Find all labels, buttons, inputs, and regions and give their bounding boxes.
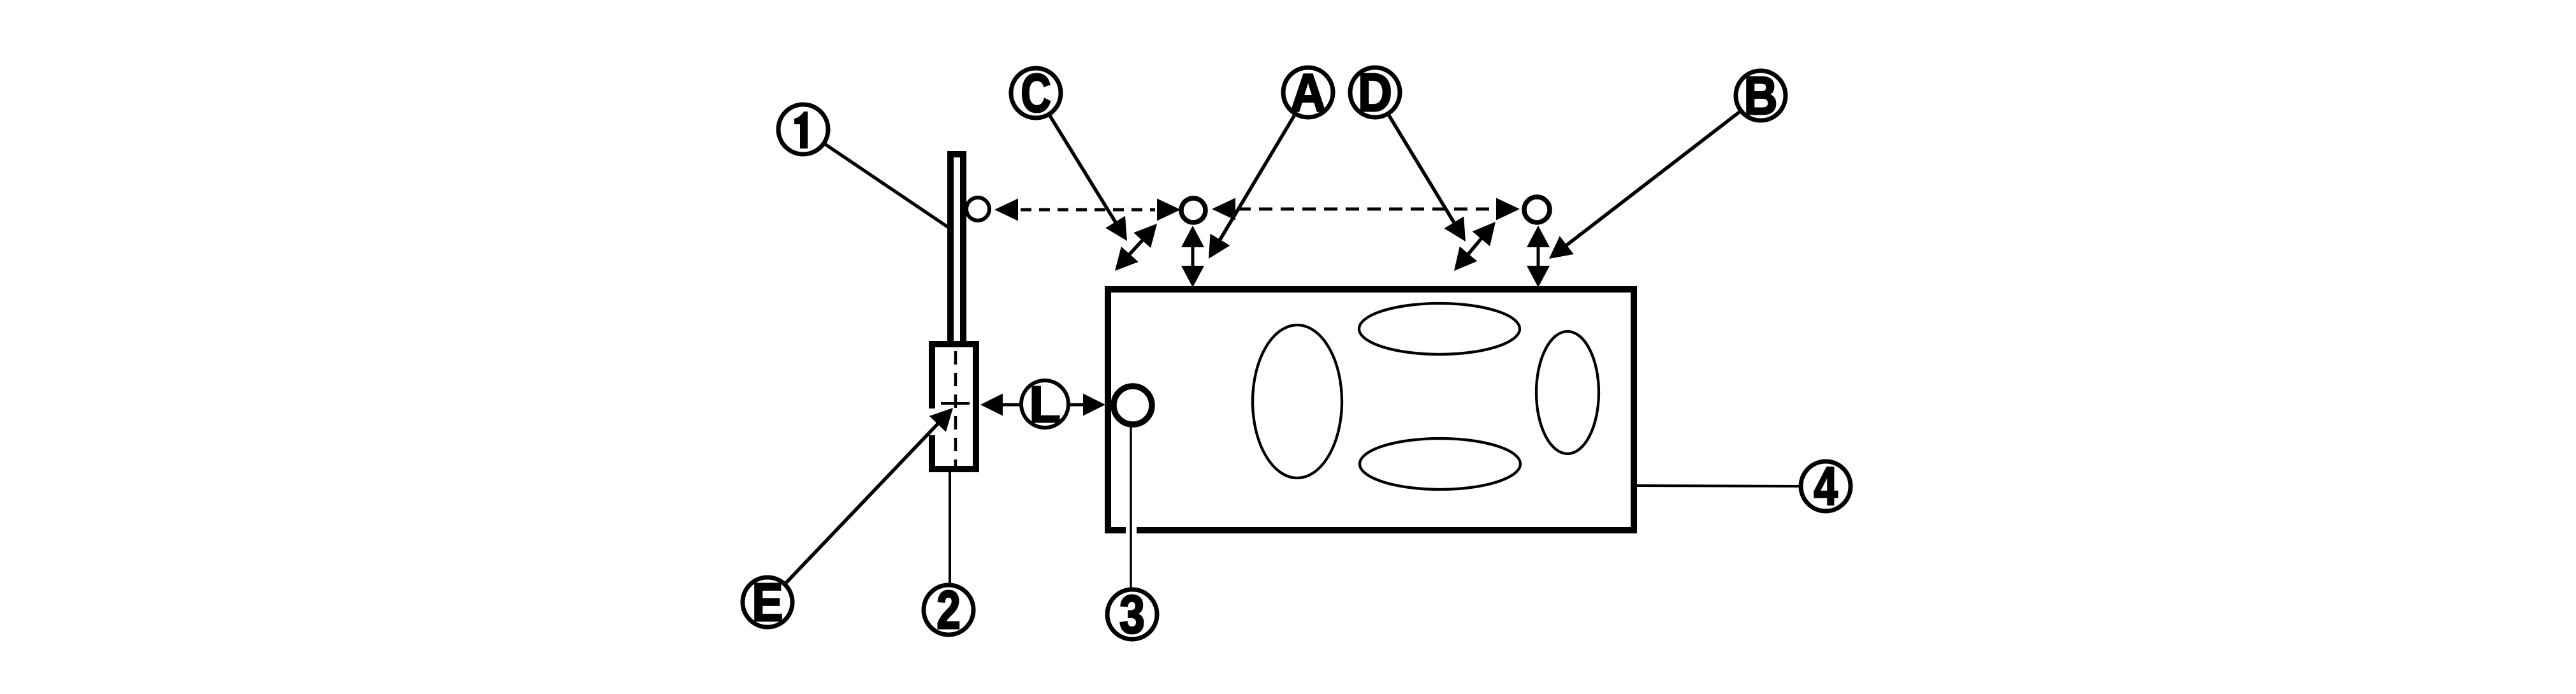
dashed dimension line left segment (994, 199, 1181, 221)
vertical double arrow right (1527, 226, 1550, 287)
vertical double arrow mid (1181, 226, 1204, 287)
mid pin (1181, 198, 1205, 222)
label L (1021, 376, 1068, 433)
label 4 (1801, 457, 1851, 517)
leader line 4 (1634, 486, 1800, 486)
leader line A with arrow (1219, 116, 1294, 241)
slider block 2 (926, 344, 976, 469)
dashed dimension line right segment (1212, 198, 1520, 220)
svg-text:E: E (752, 572, 783, 632)
pin on rod (966, 198, 989, 220)
svg-text:2: 2 (936, 581, 960, 640)
leader line 1 (826, 145, 949, 228)
label C (1011, 63, 1061, 123)
knob 3 (1114, 386, 1152, 424)
right pin (1524, 197, 1550, 222)
ellipse bottom (1360, 438, 1520, 489)
label D (1350, 62, 1400, 122)
svg-text:3: 3 (1119, 584, 1145, 644)
label 1 (778, 105, 828, 154)
ellipse right (1536, 331, 1599, 454)
label A (1283, 63, 1333, 123)
main body 4 (1108, 289, 1634, 535)
svg-text:B: B (1744, 66, 1778, 126)
label 2 (924, 581, 973, 640)
leader line 2 (949, 469, 951, 584)
ellipse left (1253, 325, 1342, 478)
label 3 (1107, 584, 1157, 644)
rod 1 (vertical bar) (950, 154, 963, 345)
svg-text:L: L (1030, 376, 1061, 433)
label B (1736, 66, 1786, 126)
leader line C with arrow (1050, 116, 1116, 223)
leader line D with arrow (1389, 115, 1455, 223)
label E (743, 572, 792, 632)
diagonal double arrow right (1454, 222, 1495, 271)
dimension L arrows (980, 394, 1105, 416)
svg-text:D: D (1358, 62, 1392, 122)
leader line E with arrow (786, 423, 938, 582)
diagonal double arrow left (1115, 224, 1157, 271)
svg-text:4: 4 (1814, 457, 1837, 517)
svg-text:A: A (1290, 63, 1326, 123)
leader line B with arrow (1566, 112, 1739, 246)
leader line 3 (1130, 427, 1132, 588)
svg-text:C: C (1021, 63, 1051, 123)
ellipse top (1359, 303, 1520, 354)
